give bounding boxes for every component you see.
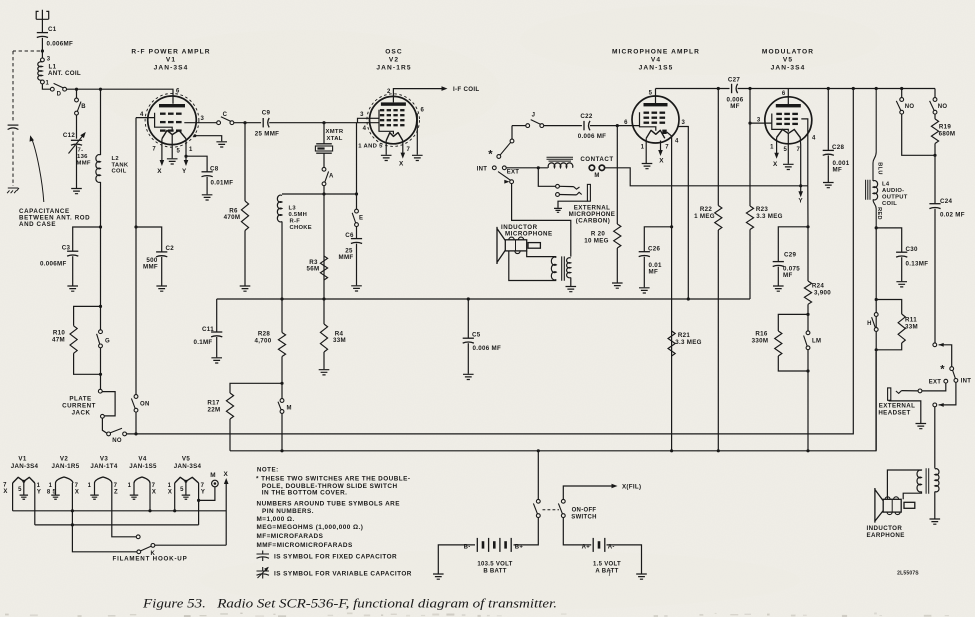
V4 pin 4 wire down (grid return) bbox=[667, 132, 672, 451]
battery A 1.5 VOLT bbox=[592, 538, 594, 552]
node R23 on top bus bbox=[748, 87, 751, 90]
main plate wire to V1 pin 6 bbox=[67, 89, 174, 104]
svg-text:M: M bbox=[287, 406, 292, 412]
node R28 top bbox=[280, 297, 283, 300]
wire V2 junction down to switch E bbox=[356, 123, 358, 210]
svg-text:0.006 MF: 0.006 MF bbox=[473, 345, 502, 352]
V5 pin 1 lead with arrow to X bbox=[776, 137, 778, 155]
wire L4 bottom down to headset line bbox=[875, 226, 877, 451]
svg-text:R19: R19 bbox=[939, 124, 952, 131]
svg-text:0.5MH: 0.5MH bbox=[289, 212, 308, 218]
svg-text:JACK: JACK bbox=[72, 409, 91, 416]
V5 pin 6 lead to top bus bbox=[787, 89, 789, 105]
svg-text:MEG=MEGOHMS (1,000,000 Ω.): MEG=MEGOHMS (1,000,000 Ω.) bbox=[257, 524, 364, 531]
svg-text:7: 7 bbox=[114, 483, 118, 489]
pointer arrow to dashed capacitor bbox=[32, 139, 44, 203]
svg-text:L4: L4 bbox=[882, 181, 890, 187]
wire C26 to ground bbox=[643, 257, 645, 288]
svg-text:EXT: EXT bbox=[929, 380, 942, 386]
resistor R28 4,700 bbox=[278, 333, 285, 357]
svg-text:R28: R28 bbox=[258, 331, 271, 338]
svg-text:D: D bbox=[57, 92, 62, 98]
audio output coil L4 bbox=[866, 180, 870, 200]
svg-text:1 AND 5: 1 AND 5 bbox=[358, 143, 383, 149]
capacitor C27 0.006 MF bbox=[731, 84, 733, 93]
V5 pin 4 grid return wire bbox=[801, 119, 808, 186]
V1 filament bbox=[162, 130, 186, 138]
wire R20 bbox=[616, 126, 618, 224]
node ON switch on line 1 bbox=[134, 432, 137, 435]
capacitance between ant rod and case (dashed capacitor) bbox=[8, 124, 19, 126]
svg-text:NO: NO bbox=[938, 104, 948, 110]
svg-text:0.01MF: 0.01MF bbox=[211, 180, 234, 187]
svg-text:MF: MF bbox=[649, 269, 659, 276]
svg-text:XTAL: XTAL bbox=[327, 136, 343, 142]
V1 grid bracket and pin 4 bbox=[155, 113, 173, 131]
svg-text:PLATE: PLATE bbox=[69, 395, 91, 402]
svg-text:5: 5 bbox=[177, 149, 181, 155]
filament bus 2 bbox=[35, 524, 199, 526]
wire R20 to ground bbox=[616, 248, 618, 283]
wire to capacitor C2 bbox=[136, 227, 162, 252]
svg-text:56M: 56M bbox=[307, 266, 320, 273]
wire R6 to ground bbox=[244, 123, 246, 201]
svg-text:8 5: 8 5 bbox=[47, 489, 57, 495]
svg-text:Y: Y bbox=[182, 168, 187, 175]
svg-text:5: 5 bbox=[783, 147, 787, 153]
svg-text:X: X bbox=[168, 489, 172, 495]
capacitor C2 500 MMF bbox=[156, 251, 167, 253]
R10 bypass loop with switch G bbox=[99, 305, 102, 308]
svg-text:1: 1 bbox=[189, 147, 193, 153]
wire transformer secondary to ground bbox=[570, 278, 572, 287]
svg-text:136: 136 bbox=[77, 154, 88, 160]
resistor R24 3,900 bbox=[804, 281, 811, 304]
svg-text:C6: C6 bbox=[345, 232, 354, 239]
svg-text:JAN-1S5: JAN-1S5 bbox=[129, 463, 157, 470]
V2 grid bracket pins 3 and 4 bbox=[379, 110, 393, 135]
wire switch C to C9 bbox=[234, 122, 261, 124]
wire jack to switch NO bbox=[102, 418, 107, 433]
svg-text:MF: MF bbox=[783, 272, 793, 279]
external headset jack sleeve bbox=[888, 388, 891, 400]
wire to C28 bbox=[827, 89, 829, 151]
wire R17 top bbox=[230, 383, 282, 393]
svg-text:Y: Y bbox=[37, 489, 41, 495]
svg-text:C11: C11 bbox=[202, 326, 214, 333]
wire C29 to ground bbox=[777, 267, 779, 286]
filament bus X line bbox=[225, 482, 227, 546]
variable capacitor symbol in note bbox=[257, 567, 270, 579]
external microphone jack tip contact bbox=[556, 184, 560, 188]
svg-text:7: 7 bbox=[3, 483, 7, 489]
svg-text:7: 7 bbox=[407, 147, 411, 153]
wire node to crystal bbox=[323, 123, 325, 144]
wire L4 to C30 bbox=[876, 228, 902, 252]
node L4 secondary to C30 bbox=[875, 226, 878, 229]
svg-text:TANK: TANK bbox=[112, 162, 129, 168]
svg-text:B BATT: B BATT bbox=[483, 569, 506, 575]
microphone plug arrow bbox=[504, 180, 509, 184]
ground below C12 bbox=[71, 189, 82, 194]
svg-text:4: 4 bbox=[812, 136, 816, 142]
svg-text:AUDIO-: AUDIO- bbox=[882, 188, 904, 194]
R11 parallel loop bbox=[876, 300, 902, 315]
svg-text:SWITCH: SWITCH bbox=[571, 514, 596, 520]
svg-text:7: 7 bbox=[152, 483, 156, 489]
node V5 pin 3 junction bbox=[748, 122, 751, 125]
headset selector pole 1 bbox=[933, 343, 937, 347]
V4 grid bracket and pin 6 bbox=[640, 112, 656, 130]
wire A battery to ground bbox=[607, 545, 642, 574]
node R20 branch bbox=[616, 124, 619, 127]
wire node to L2 bbox=[100, 89, 102, 155]
wire L3 to mid bus bbox=[281, 222, 283, 300]
capacitor C3 0.006MF bbox=[67, 250, 78, 252]
svg-text:3.3 MEG: 3.3 MEG bbox=[675, 339, 702, 346]
node C26 branch bbox=[670, 225, 673, 228]
svg-text:V1: V1 bbox=[166, 57, 176, 64]
V4 pin 3 wire down to mid bus bbox=[678, 127, 688, 300]
top bus B+ line bbox=[656, 88, 730, 90]
wire switch A to R3 bbox=[323, 186, 325, 299]
node R16 bottom bbox=[806, 369, 809, 372]
inductor microphone body bbox=[505, 240, 526, 251]
svg-text:NO: NO bbox=[112, 438, 122, 444]
V1 grid bbox=[160, 113, 166, 115]
svg-text:CURRENT: CURRENT bbox=[62, 402, 96, 409]
capacitor C1 0.006MF bbox=[37, 32, 48, 34]
svg-text:4: 4 bbox=[363, 126, 367, 132]
svg-text:L3: L3 bbox=[289, 206, 297, 212]
svg-text:NO: NO bbox=[905, 104, 915, 110]
inductor earphone transformer bbox=[926, 468, 929, 493]
inductor earphone horn bbox=[875, 488, 883, 523]
svg-text:103.5 VOLT: 103.5 VOLT bbox=[477, 561, 512, 567]
capacitor C8 0.01MF bbox=[202, 171, 213, 173]
svg-text:3: 3 bbox=[757, 118, 761, 124]
wire R17 to line 2 bbox=[229, 419, 231, 451]
svg-text:NOTE:: NOTE: bbox=[257, 467, 279, 474]
mid bus wire bbox=[217, 298, 750, 300]
svg-text:FILAMENT HOOK-UP: FILAMENT HOOK-UP bbox=[112, 556, 187, 563]
wire L3 R-F choke line bbox=[282, 193, 357, 195]
svg-text:B: B bbox=[81, 104, 86, 110]
svg-text:X: X bbox=[224, 471, 229, 478]
svg-text:X: X bbox=[773, 161, 778, 168]
resistor R3 56M bbox=[320, 256, 327, 280]
svg-text:4,700: 4,700 bbox=[255, 338, 272, 345]
svg-text:C29: C29 bbox=[784, 252, 797, 259]
svg-text:C26: C26 bbox=[648, 245, 661, 252]
switch INT/EXT (microphone selector) bbox=[510, 139, 514, 143]
capacitor C24 0.02 MF bbox=[929, 203, 940, 205]
pin 3 of L1 bbox=[41, 58, 45, 62]
wire EXT contact to contact line bbox=[506, 167, 548, 169]
tube V1 envelope bbox=[148, 96, 197, 145]
ground below R4 bbox=[319, 370, 330, 375]
node R11 top bbox=[875, 298, 878, 301]
inductor L2 TANK COIL bbox=[96, 155, 101, 183]
wire to V5 pin 3 bbox=[750, 122, 772, 124]
svg-text:G: G bbox=[105, 338, 110, 344]
wire pole1 to B battery bbox=[514, 518, 539, 545]
svg-text:6: 6 bbox=[782, 91, 786, 97]
wire V1 pin4 column bbox=[135, 118, 137, 395]
svg-text:0.006 MF: 0.006 MF bbox=[578, 133, 607, 140]
svg-text:ANT. COIL: ANT. COIL bbox=[48, 70, 81, 77]
V1 pin 3 wire to switch C bbox=[184, 122, 216, 124]
svg-text:ON: ON bbox=[140, 401, 150, 407]
tube V5 envelope bbox=[765, 97, 812, 144]
V4 grid bbox=[644, 112, 650, 114]
wire C8 to ground bbox=[206, 177, 208, 195]
wire transformer to ground bbox=[934, 492, 936, 519]
resistor R4 33M bbox=[320, 324, 327, 352]
svg-text:V4: V4 bbox=[651, 57, 661, 64]
svg-text:3,900: 3,900 bbox=[814, 290, 831, 297]
inductor L3 0.5MH R-F CHOKE bbox=[277, 195, 282, 222]
ground below C8 bbox=[202, 195, 213, 200]
ground below C3 bbox=[67, 286, 78, 291]
wire C3 to ground bbox=[72, 256, 74, 285]
wire C30 to ground bbox=[901, 257, 903, 281]
svg-text:0.006MF: 0.006MF bbox=[40, 261, 67, 268]
inductor earphone body bbox=[883, 499, 901, 512]
switch D bbox=[50, 87, 54, 91]
wire to capacitor C8 bbox=[186, 156, 207, 172]
V5 filament bbox=[777, 129, 801, 137]
svg-text:ON-OFF: ON-OFF bbox=[572, 507, 597, 513]
dashed wire to antenna-rod capacitance bbox=[13, 50, 40, 52]
node C2 branch bbox=[134, 225, 137, 228]
switch K bbox=[137, 550, 141, 554]
svg-text:0.1MF: 0.1MF bbox=[193, 339, 212, 346]
resistor R17 22M bbox=[226, 393, 233, 419]
V2 pin 2 lead to I-F coil arrow bbox=[393, 89, 442, 103]
V2 pin3/4 entry step from main wire bbox=[358, 118, 370, 122]
svg-text:* THESE TWO SWITCHES ARE THE D: * THESE TWO SWITCHES ARE THE DOUBLE- bbox=[256, 475, 410, 482]
wire L2 down to R10 node bbox=[100, 182, 102, 306]
V1 shield pin to ground bbox=[193, 134, 196, 137]
svg-text:C30: C30 bbox=[906, 246, 919, 253]
wire to capacitor C29 bbox=[778, 227, 808, 262]
svg-text:C24: C24 bbox=[940, 198, 953, 205]
V2 pin 6 lead to ground bbox=[416, 114, 417, 155]
svg-text:JAN-1S5: JAN-1S5 bbox=[639, 65, 674, 72]
EXT contact bbox=[944, 379, 948, 383]
svg-text:XMTR: XMTR bbox=[326, 129, 344, 135]
svg-text:MMF: MMF bbox=[339, 254, 354, 261]
V4 pin 5 lead to top bus bbox=[655, 89, 657, 104]
svg-text:1: 1 bbox=[49, 483, 53, 489]
svg-text:X: X bbox=[3, 489, 7, 495]
wire to inductor earphone transformer bbox=[934, 407, 936, 469]
wire mid bus to C5 bbox=[467, 299, 469, 338]
svg-text:680M: 680M bbox=[939, 131, 956, 138]
V4 grid terminal bbox=[662, 130, 666, 134]
wire contact to audio line bbox=[605, 168, 808, 186]
svg-text:1: 1 bbox=[128, 483, 132, 489]
svg-text:CHOKE: CHOKE bbox=[290, 225, 312, 231]
ground below C5 bbox=[463, 374, 474, 379]
wire C1 to node bbox=[41, 38, 43, 58]
switch H bbox=[874, 313, 878, 317]
R16 parallel loop bbox=[778, 314, 808, 331]
svg-text:COIL: COIL bbox=[882, 201, 897, 207]
V4 filament bbox=[646, 130, 665, 138]
node R16 top bbox=[806, 313, 809, 316]
INT contact bbox=[954, 379, 958, 383]
ground below C2 bbox=[156, 286, 167, 291]
node R22 on top bus bbox=[717, 87, 720, 90]
svg-text:MF: MF bbox=[730, 103, 740, 110]
capacitor C28 0.001 MF bbox=[823, 149, 834, 151]
svg-text:R-F: R-F bbox=[290, 219, 301, 225]
svg-text:1.5 VOLT: 1.5 VOLT bbox=[593, 561, 621, 567]
crystal XMTR XTAL bbox=[316, 143, 332, 145]
node L3 line junction bbox=[322, 192, 325, 195]
svg-text:V5: V5 bbox=[182, 456, 190, 463]
capacitor C22 0.006 MF bbox=[583, 121, 585, 130]
wire C5 to ground bbox=[467, 343, 469, 374]
wire C28 to ground bbox=[827, 155, 829, 182]
svg-text:MF: MF bbox=[833, 167, 843, 174]
svg-text:330M: 330M bbox=[752, 337, 769, 344]
node C29 branch bbox=[806, 225, 809, 228]
svg-text:EARPHONE: EARPHONE bbox=[867, 532, 905, 539]
wire mic body to transformer primary top bbox=[527, 251, 557, 257]
svg-text:EXTERNAL: EXTERNAL bbox=[879, 402, 916, 409]
tube V4 envelope bbox=[632, 96, 679, 143]
svg-text:C5: C5 bbox=[472, 332, 481, 339]
wire sleeve to ground bbox=[889, 400, 921, 423]
wire switch ON to line 1 bbox=[135, 412, 137, 434]
svg-text:1: 1 bbox=[46, 81, 50, 87]
resistor R22 1 MEG bbox=[717, 89, 719, 206]
svg-text:MODULATOR: MODULATOR bbox=[762, 49, 814, 56]
switch E bbox=[355, 209, 359, 213]
wire to plate current jack bbox=[100, 374, 102, 389]
svg-text:C3: C3 bbox=[62, 245, 71, 252]
ground below R6 bbox=[240, 286, 251, 291]
svg-text:7-: 7- bbox=[78, 148, 84, 154]
wire R23 to mid bus bbox=[749, 230, 751, 300]
svg-text:LM: LM bbox=[812, 338, 821, 344]
switch B bbox=[75, 98, 79, 102]
wire EXT to headset jack bbox=[922, 383, 946, 391]
svg-text:1: 1 bbox=[168, 483, 172, 489]
svg-text:Y: Y bbox=[201, 489, 205, 495]
svg-text:JAN-3S4: JAN-3S4 bbox=[771, 65, 806, 72]
svg-text:JAN-1T4: JAN-1T4 bbox=[90, 463, 117, 470]
capacitor C9 25 MMF bbox=[262, 118, 264, 127]
svg-text:IS SYMBOL FOR VARIABLE CAPACIT: IS SYMBOL FOR VARIABLE CAPACITOR bbox=[274, 571, 412, 578]
svg-text:4: 4 bbox=[140, 112, 144, 118]
svg-text:B+: B+ bbox=[515, 544, 524, 550]
svg-text:A BATT: A BATT bbox=[595, 569, 618, 575]
svg-text:33M: 33M bbox=[905, 324, 918, 331]
svg-text:X: X bbox=[152, 489, 156, 495]
svg-text:V4: V4 bbox=[138, 456, 146, 463]
contact coil (relay) bbox=[547, 157, 574, 161]
inductor microphone horn bbox=[497, 227, 505, 264]
filament drop to switch K bbox=[72, 525, 136, 552]
switch LM bbox=[806, 331, 810, 335]
plate current jack bbox=[98, 389, 102, 393]
svg-text:MF=MICROFARADS: MF=MICROFARADS bbox=[257, 533, 324, 540]
pin 1 of L1 bbox=[41, 80, 45, 84]
svg-text:MMF: MMF bbox=[143, 264, 158, 271]
V2 pin 1 and 5 lead to ground bbox=[385, 141, 387, 155]
switch NO 2 bbox=[934, 89, 936, 98]
V5 grid bracket and pin 3 bbox=[772, 114, 789, 132]
ground below C6 bbox=[351, 286, 362, 291]
svg-text:X: X bbox=[75, 489, 79, 495]
svg-text:*: * bbox=[488, 149, 493, 161]
wire switch J to C22 bbox=[544, 125, 582, 127]
wire sleeve to ground bbox=[558, 201, 587, 208]
svg-text:I-F COIL: I-F COIL bbox=[453, 86, 479, 93]
arrow to Y bbox=[800, 186, 802, 194]
wire R24 to LM node bbox=[807, 304, 809, 331]
node C1/ant-rod dashed tap bbox=[41, 49, 44, 52]
svg-text:47M: 47M bbox=[52, 336, 65, 343]
on-off switch pole 1 bbox=[536, 499, 540, 503]
svg-text:COIL: COIL bbox=[112, 169, 127, 175]
wire R28 bbox=[281, 299, 283, 333]
svg-text:CONTACT: CONTACT bbox=[580, 156, 613, 163]
svg-text:C27: C27 bbox=[728, 76, 741, 83]
wire ext mic jack branch bbox=[538, 168, 555, 187]
svg-text:E: E bbox=[359, 216, 363, 222]
wire INT pole to inductor microphone bbox=[512, 184, 571, 257]
svg-text:PIN NUMBERS.: PIN NUMBERS. bbox=[262, 508, 314, 515]
svg-text:INT: INT bbox=[477, 166, 488, 172]
node switch B branch bbox=[75, 88, 78, 91]
node C5 on mid bus bbox=[467, 297, 470, 300]
external microphone jack ring contact bbox=[556, 193, 560, 197]
wire pole2 to X(FIL) bbox=[563, 486, 613, 499]
supply line 2 bbox=[230, 352, 876, 451]
contact points M bbox=[589, 165, 594, 170]
wire LM to line 2 bbox=[807, 350, 809, 451]
earphone terminal block bbox=[904, 502, 915, 508]
svg-text:1: 1 bbox=[37, 483, 41, 489]
svg-text:*: * bbox=[940, 364, 945, 376]
switch J bbox=[526, 124, 530, 128]
svg-text:7: 7 bbox=[796, 147, 800, 153]
svg-text:AND CASE: AND CASE bbox=[19, 221, 56, 228]
svg-text:7: 7 bbox=[75, 483, 79, 489]
wire mid bus to C11 bbox=[216, 299, 218, 332]
microphone terminal block bbox=[528, 243, 540, 249]
svg-text:1: 1 bbox=[770, 145, 774, 151]
wire C2 to ground bbox=[161, 257, 163, 286]
svg-text:7: 7 bbox=[201, 483, 205, 489]
wire switch E to C6 bbox=[356, 227, 358, 239]
svg-text:(CARBON): (CARBON) bbox=[576, 218, 610, 225]
svg-text:X(FIL): X(FIL) bbox=[622, 483, 641, 490]
V4 pin 7 lead with arrow to X bbox=[660, 141, 662, 153]
filament bus 1 bbox=[13, 510, 227, 512]
resistor R6 470M bbox=[241, 201, 248, 230]
svg-text:0.13MF: 0.13MF bbox=[906, 261, 929, 268]
svg-text:M=1,000 Ω.: M=1,000 Ω. bbox=[257, 516, 295, 523]
V1 pin 7 lead with arrow to X bbox=[161, 139, 163, 163]
switch M bbox=[280, 399, 284, 403]
svg-text:X: X bbox=[659, 157, 664, 164]
